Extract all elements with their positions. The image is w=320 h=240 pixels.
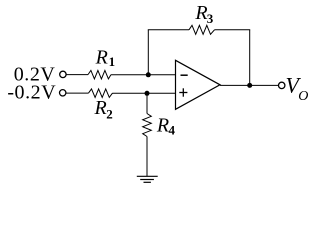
wire R2 to non-inverting input bbox=[113, 92, 176, 94]
resistor R1 bbox=[88, 70, 111, 79]
wire feedback top left bbox=[148, 29, 189, 31]
wire op-amp output bbox=[220, 84, 278, 86]
svg-text:R: R bbox=[95, 47, 108, 69]
node non-inverting input junction bbox=[145, 91, 150, 96]
wire R4 to ground bbox=[146, 137, 148, 177]
node inverting input junction bbox=[146, 72, 151, 77]
resistor R4 bbox=[143, 114, 152, 137]
svg-text:R: R bbox=[194, 2, 207, 24]
svg-text:3: 3 bbox=[207, 11, 214, 26]
wire feedback right vertical bbox=[249, 30, 251, 86]
wire R1 to inverting input bbox=[111, 74, 176, 76]
wire feedback top right bbox=[215, 29, 251, 31]
output terminal VO bbox=[279, 82, 285, 88]
svg-text:1: 1 bbox=[109, 54, 116, 69]
node output junction bbox=[247, 83, 252, 88]
ground bbox=[137, 176, 158, 182]
wire -0.2V terminal to R2 bbox=[66, 92, 89, 94]
op-amp U1 bbox=[176, 60, 221, 109]
wire junction to R4 bbox=[146, 93, 148, 113]
resistor R2 bbox=[89, 89, 113, 98]
wire feedback left vertical bbox=[147, 30, 149, 75]
input terminal 0.2V bbox=[60, 71, 66, 77]
svg-text:-0.2V: -0.2V bbox=[7, 81, 56, 103]
svg-text:2: 2 bbox=[106, 106, 113, 121]
svg-text:R: R bbox=[94, 97, 107, 119]
svg-text:R: R bbox=[156, 115, 169, 137]
wire 0.2V terminal to R1 bbox=[66, 74, 88, 76]
svg-text:O: O bbox=[298, 89, 308, 104]
svg-text:4: 4 bbox=[169, 123, 176, 138]
input terminal -0.2V bbox=[60, 90, 66, 96]
resistor R3 bbox=[189, 25, 215, 34]
